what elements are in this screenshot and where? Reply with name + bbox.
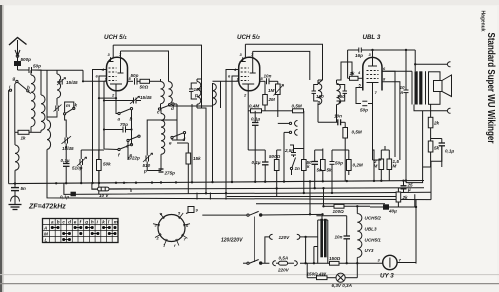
svg-text:16p: 16p xyxy=(355,53,363,58)
screen rail pin3 top xyxy=(113,45,201,79)
switch g antenna xyxy=(15,80,29,92)
svg-text:µ: µ xyxy=(407,187,411,192)
svg-text:g: g xyxy=(12,76,16,81)
trimmer 6/22p xyxy=(143,150,153,171)
connector bottom xyxy=(447,108,450,113)
resistor 100ohm xyxy=(322,204,370,208)
UCH5/2 grid dashes xyxy=(241,68,249,81)
svg-text:5n: 5n xyxy=(21,186,27,191)
pickup jacks xyxy=(278,121,298,182)
svg-text:UCH 5/2: UCH 5/2 xyxy=(237,34,260,41)
switch m k xyxy=(64,107,75,133)
output transformer primary line xyxy=(411,71,413,104)
svg-text:d: d xyxy=(68,219,71,224)
potentiometer 1M volume xyxy=(274,81,284,117)
UCH5/1 pin2 cathode wire xyxy=(99,91,118,114)
resistor 1k grid stopper xyxy=(348,76,363,80)
junction dots left xyxy=(14,80,133,185)
capacitor 5n to ground xyxy=(11,184,19,195)
tap 120V xyxy=(300,236,318,238)
heater leads xyxy=(356,206,358,263)
svg-text:1k: 1k xyxy=(350,71,356,76)
svg-text:0,5A: 0,5A xyxy=(279,256,289,261)
switch tone xyxy=(290,155,295,175)
switch f e xyxy=(118,144,133,151)
svg-text:L: L xyxy=(45,238,48,243)
svg-text:0,2M: 0,2M xyxy=(353,163,363,168)
capacitor 16p top xyxy=(359,48,362,53)
capacitor 50p anode xyxy=(135,78,141,85)
table dots row A xyxy=(51,226,116,228)
svg-text:50p: 50p xyxy=(360,108,368,113)
socket pilot square 9 xyxy=(188,207,194,213)
lamp 6,3V xyxy=(336,273,357,282)
trimmer 15/45 top xyxy=(57,78,66,86)
capacitor 10n ot vertical xyxy=(404,50,409,183)
UCH5/2 pin5 wire xyxy=(260,80,266,82)
svg-text:UBL 3: UBL 3 xyxy=(363,34,381,41)
svg-text:a: a xyxy=(118,117,121,122)
IF2 coil secondary xyxy=(337,84,341,105)
left scan edge dark strip xyxy=(0,0,2,292)
pin labels UBL3 xyxy=(357,52,386,95)
resistor 50ohm xyxy=(140,79,161,83)
svg-text:160: 160 xyxy=(194,87,202,92)
svg-text:0,4M: 0,4M xyxy=(249,104,259,109)
wire IF2 secondary top xyxy=(337,62,353,80)
resistor 2k feedback xyxy=(428,105,433,139)
capacitor 70p xyxy=(117,127,131,133)
trimmer 15/45 antenna xyxy=(62,133,72,147)
svg-text:b: b xyxy=(57,219,60,224)
svg-text:UY3: UY3 xyxy=(365,248,374,253)
resistor 1,5M bias xyxy=(387,150,392,181)
agc feed line xyxy=(131,150,374,192)
capacitor 10n det xyxy=(267,78,278,84)
speaker cone xyxy=(442,75,452,97)
UCH5/2 pin2 wire xyxy=(247,91,249,104)
svg-text:UCH 5/1: UCH 5/1 xyxy=(104,34,127,41)
svg-text:0,5M: 0,5M xyxy=(352,130,362,135)
bus line 3 xyxy=(64,183,431,194)
IF1 secondary leads xyxy=(192,79,202,182)
wire UBL3 top line xyxy=(348,50,416,71)
svg-text:15/45: 15/45 xyxy=(140,95,152,100)
svg-text:0,1µ: 0,1µ xyxy=(60,195,69,200)
UY3 filament bar xyxy=(389,258,391,268)
UBL3 pin8 wire xyxy=(382,82,400,160)
wire lamp rail xyxy=(307,263,357,278)
switch mains top xyxy=(247,211,262,216)
variable capacitor 510p tuning xyxy=(77,150,104,183)
socket pin labels xyxy=(155,208,199,249)
svg-text:c: c xyxy=(62,219,65,224)
capacitor 10n afc xyxy=(318,119,345,125)
svg-text:150Ω 4W: 150Ω 4W xyxy=(307,271,327,276)
wire pot top to 0,5M xyxy=(270,110,285,112)
wire 16p left drop xyxy=(347,50,349,78)
IF2 secondary leads xyxy=(336,80,338,122)
switch a b xyxy=(118,108,133,115)
switch mains bottom xyxy=(243,217,262,265)
svg-text:10n: 10n xyxy=(335,235,343,240)
bottom fold crease line xyxy=(0,274,499,276)
oscillator coil xyxy=(161,114,165,155)
resistor 15k xyxy=(186,143,191,193)
svg-text:510p: 510p xyxy=(72,166,83,171)
IF2 primary leads xyxy=(318,80,323,112)
svg-text:50p: 50p xyxy=(33,64,41,69)
main ground bus xyxy=(13,181,424,184)
bus line 4b xyxy=(227,196,397,198)
capacitor 50p xyxy=(29,67,42,73)
svg-text:0,1µ: 0,1µ xyxy=(61,158,70,163)
tube UCH5/2 envelope xyxy=(239,57,260,91)
transformer top lead xyxy=(316,216,346,220)
table dots row L xyxy=(63,238,71,240)
svg-text:Hagenuk: Hagenuk xyxy=(479,11,485,33)
antenna coil L1 secondary xyxy=(41,95,45,130)
svg-text:50k: 50k xyxy=(103,162,111,167)
wire 10n to 0,5M xyxy=(318,105,345,128)
svg-text:e: e xyxy=(74,219,77,224)
oscillator coil leads xyxy=(159,108,161,171)
svg-text:40µ: 40µ xyxy=(388,209,397,214)
connector fuse right xyxy=(294,261,297,266)
output transformer core xyxy=(415,71,418,104)
UBL3 pin5 wire xyxy=(356,88,363,102)
svg-text:5k: 5k xyxy=(434,146,440,151)
svg-text:h: h xyxy=(91,219,94,224)
UCH5/1 top cap pin3 wire xyxy=(108,45,114,61)
svg-text:50p: 50p xyxy=(131,73,139,78)
resistor 1k xyxy=(15,84,41,134)
vertical osc to bus xyxy=(169,83,213,106)
resistor 0,4M xyxy=(248,109,270,113)
svg-text:10 V: 10 V xyxy=(99,193,109,198)
UCH5/1 pin4 wire xyxy=(93,70,107,184)
svg-text:UY 3: UY 3 xyxy=(380,273,394,280)
capacitor 40u electrolytic xyxy=(370,205,398,209)
tube UBL3 envelope xyxy=(363,57,382,90)
svg-text:500Ω: 500Ω xyxy=(269,154,281,159)
antenna coil L1 primary xyxy=(31,75,35,127)
svg-text:ZF=472kHz: ZF=472kHz xyxy=(28,204,66,211)
svg-text:UBL3: UBL3 xyxy=(365,227,377,232)
detector row resistor 0,2M xyxy=(347,150,352,175)
connector 120V left xyxy=(269,234,272,239)
wire fb returns xyxy=(406,111,442,207)
bus line 4 xyxy=(47,171,431,200)
svg-text:p: p xyxy=(143,169,147,174)
IF1 coil B leads xyxy=(168,79,170,106)
svg-text:p: p xyxy=(194,93,198,98)
svg-text:h: h xyxy=(27,85,30,90)
IF1 coil A xyxy=(161,82,165,104)
svg-text:15/45: 15/45 xyxy=(62,146,74,151)
table inner lines xyxy=(43,219,119,243)
UCH5/2 grid wire pin1 xyxy=(213,81,239,108)
svg-text:2,5n: 2,5n xyxy=(284,148,294,153)
connector top xyxy=(447,62,450,67)
svg-text:1k: 1k xyxy=(21,136,27,141)
power transformer core xyxy=(320,219,323,257)
svg-text:k: k xyxy=(75,103,78,108)
wire left rail down xyxy=(8,90,10,184)
detector row capacitor 25n xyxy=(291,149,296,156)
table dots row M xyxy=(63,232,116,234)
wire cathode 2 down xyxy=(247,104,249,111)
capacitor 25u electrolytic xyxy=(401,181,407,192)
bus junction dots mid xyxy=(115,179,417,208)
nest verticals xyxy=(197,193,226,200)
detector row capacitor 0,1u xyxy=(262,150,269,182)
wire anode to OT xyxy=(382,70,412,72)
UBL3 cathode xyxy=(367,83,379,91)
UBL3 grid dashes xyxy=(367,71,379,79)
resistor 2M bias xyxy=(379,150,384,181)
UBL3 pin7 wire xyxy=(372,91,374,161)
resistor 150ohm 4W xyxy=(307,276,336,280)
oscillator coil box left xyxy=(47,70,51,198)
capacitor 160p IF2a xyxy=(312,85,319,102)
trimmer mid band xyxy=(47,104,62,117)
IF2 coil primary xyxy=(318,84,322,105)
svg-text:p: p xyxy=(317,100,321,105)
socket square lead xyxy=(186,213,189,214)
UCH5/2 pin6 wire xyxy=(232,76,239,182)
wire hv rail2 xyxy=(323,188,325,206)
bottom page edge line xyxy=(0,283,499,285)
detector row capacitor 5n xyxy=(312,150,319,188)
switch e left xyxy=(127,135,140,160)
svg-text:6/22p: 6/22p xyxy=(128,156,140,161)
junction dots power xyxy=(304,213,358,264)
capacitor 50p tone xyxy=(356,101,373,106)
wire cathode network xyxy=(398,188,416,207)
UCH5/2 anode pin7 xyxy=(250,51,256,73)
svg-text:50p: 50p xyxy=(335,161,343,166)
svg-text:g: g xyxy=(84,219,88,224)
wire 40u rail xyxy=(415,200,417,264)
svg-text:M: M xyxy=(393,164,397,169)
coil box top wire xyxy=(32,70,84,81)
svg-text:a: a xyxy=(51,219,54,224)
svg-text:M: M xyxy=(374,164,378,169)
svg-text:b: b xyxy=(130,117,133,122)
svg-text:50Ω: 50Ω xyxy=(140,85,149,90)
rectifier tube UY3 xyxy=(383,255,397,269)
svg-text:UCH5/1: UCH5/1 xyxy=(365,238,382,243)
long wave coil on left column xyxy=(14,132,16,145)
svg-text:5k: 5k xyxy=(327,168,333,173)
svg-text:m: m xyxy=(114,219,118,224)
IF1 coil B xyxy=(169,82,173,104)
svg-text:2k: 2k xyxy=(402,195,409,200)
resistor 2M xyxy=(263,81,268,111)
svg-text:15k: 15k xyxy=(193,156,201,161)
connector fuse left xyxy=(273,261,276,266)
power transformer left winding xyxy=(317,220,319,264)
svg-text:5n: 5n xyxy=(317,168,323,173)
detector row resistor 500ohm xyxy=(274,150,279,197)
mains line bottom xyxy=(261,262,330,264)
UCH5/1 anode plate pin7 xyxy=(118,51,124,73)
tube socket view circle xyxy=(153,213,190,246)
pin labels UCH5/1 xyxy=(96,52,132,98)
UBL3 anode bar xyxy=(368,58,377,67)
svg-text:0,1µ: 0,1µ xyxy=(445,149,454,154)
speaker frame xyxy=(429,72,441,105)
capacitor 0,1u tuning xyxy=(63,147,70,183)
UBL3 pin6 wire xyxy=(382,71,395,157)
heater winding chain xyxy=(357,214,362,258)
IF2a coil xyxy=(213,84,217,106)
svg-text:e: e xyxy=(169,141,172,146)
svg-text:Standard Super WU Wikinger: Standard Super WU Wikinger xyxy=(485,33,496,144)
oscillator coil box right xyxy=(57,70,61,104)
svg-text:160: 160 xyxy=(337,94,345,99)
svg-text:120/220V: 120/220V xyxy=(221,238,243,244)
vertical from screen rail xyxy=(197,79,206,193)
capacitor 160p IF2b xyxy=(337,85,348,102)
capacitor 0,1u agc xyxy=(252,111,259,182)
anode rail 2 xyxy=(253,51,310,80)
anode rail pin7 xyxy=(121,51,169,79)
svg-text:M: M xyxy=(44,232,48,237)
capacitor 500p xyxy=(15,57,21,70)
svg-text:160: 160 xyxy=(316,94,324,99)
wire fb node xyxy=(431,138,442,140)
capacitor 0,1u fb xyxy=(439,139,445,168)
svg-text:1M: 1M xyxy=(268,88,275,93)
svg-text:d: d xyxy=(171,106,174,111)
svg-text:e: e xyxy=(126,144,129,149)
svg-text:p: p xyxy=(338,100,342,105)
svg-text:UCH5/2: UCH5/2 xyxy=(365,216,382,221)
wire bias top xyxy=(373,146,390,160)
capacitor 160p IF1 xyxy=(189,83,197,99)
wire mains switch top xyxy=(202,213,323,216)
svg-text:6,3V 0,3A: 6,3V 0,3A xyxy=(332,283,352,288)
switch c d xyxy=(158,103,177,110)
svg-text:k: k xyxy=(307,164,310,169)
svg-text:2k: 2k xyxy=(433,121,440,126)
svg-text:k: k xyxy=(102,219,105,224)
svg-text:10n: 10n xyxy=(264,74,272,79)
UCH5/2 top cap pin3 xyxy=(240,44,246,61)
svg-text:0,1µ: 0,1µ xyxy=(251,117,260,122)
wire grid branch column xyxy=(104,81,128,149)
IF2a leads xyxy=(212,105,214,182)
UY3 pin7 wire xyxy=(397,262,416,264)
wire antenna to 50p xyxy=(18,69,30,71)
svg-text:500p: 500p xyxy=(21,57,32,62)
detector row resistor 50k xyxy=(302,149,307,194)
svg-text:275p: 275p xyxy=(164,171,176,176)
UCH5/2 pin4 wire xyxy=(226,70,239,194)
resistor 150ohm xyxy=(330,261,383,265)
fuse 0,5A xyxy=(276,261,294,265)
table header letters xyxy=(43,219,118,242)
capacitor 10n mains xyxy=(344,216,351,264)
UCH5/2 cathode xyxy=(242,84,254,91)
wire hv rail xyxy=(309,181,311,215)
output transformer secondary line xyxy=(425,71,427,104)
UCH5/1 grid dashes xyxy=(109,68,117,81)
svg-text:10n: 10n xyxy=(334,114,342,119)
svg-text:c: c xyxy=(157,110,160,115)
IF1 coil A leads xyxy=(160,79,162,108)
svg-text:70p: 70p xyxy=(120,122,128,127)
capacitor 0,1u agc bus xyxy=(71,192,75,196)
UCH5/1 pin5 wire xyxy=(128,80,134,82)
svg-text:m: m xyxy=(66,103,70,108)
speaker top lead xyxy=(415,63,447,65)
tap 220V vertical xyxy=(306,237,318,263)
resistor 0,5M diode load xyxy=(285,109,304,149)
resistor 50k AVC xyxy=(97,150,102,194)
switch e d osc xyxy=(171,132,186,141)
UCH5/1 cathode xyxy=(110,84,122,91)
svg-text:150Ω: 150Ω xyxy=(329,256,341,261)
svg-text:1n: 1n xyxy=(295,166,301,171)
screen rail 2 xyxy=(245,44,322,80)
wire 120V jumper xyxy=(265,237,270,263)
speaker bottom lead xyxy=(414,105,448,111)
svg-text:n: n xyxy=(401,90,404,95)
wire osc grid xyxy=(147,104,184,150)
connector 120V right xyxy=(297,234,300,239)
bus line 2 xyxy=(92,183,424,189)
svg-text:2M: 2M xyxy=(268,97,276,102)
UCH5/1 grid1 wire pin1 xyxy=(83,80,107,82)
antenna xyxy=(9,38,27,58)
wire switch column b xyxy=(131,110,133,145)
top scan edge light strip xyxy=(0,0,499,5)
svg-text:A: A xyxy=(43,226,47,231)
UCH5/1 pin6 wire xyxy=(99,76,107,183)
svg-text:d: d xyxy=(183,137,186,142)
svg-text:0,5M: 0,5M xyxy=(292,104,302,109)
svg-text:220V: 220V xyxy=(277,268,290,273)
resistor 2k cathode xyxy=(396,188,401,207)
fuse 10k pill xyxy=(92,187,131,191)
detector row resistor 5k xyxy=(321,149,326,182)
bus line 5 xyxy=(256,203,385,205)
svg-text:510: 510 xyxy=(143,163,151,168)
chassis arc symbol xyxy=(11,196,20,202)
svg-text:15/45: 15/45 xyxy=(66,80,78,85)
svg-text:100Ω: 100Ω xyxy=(333,209,345,214)
pin labels UCH5/2 xyxy=(228,52,264,98)
switch table frame xyxy=(43,219,119,243)
ground xyxy=(9,195,22,210)
wire m k to coil xyxy=(65,102,74,113)
detector row top wires xyxy=(248,111,349,150)
tube UCH5/1 envelope xyxy=(107,57,128,91)
resistor 0,5M grid leak xyxy=(343,128,348,182)
IF1 secondary coil xyxy=(197,82,201,105)
capacitor 275p xyxy=(159,169,164,172)
detector row capacitor 50p xyxy=(330,150,335,193)
trimmer 15/45 mixer grid xyxy=(128,96,141,104)
svg-text:0,1µ: 0,1µ xyxy=(252,160,261,165)
power transformer right winding xyxy=(327,220,329,264)
svg-text:120V: 120V xyxy=(279,235,291,240)
node i terminal xyxy=(9,89,12,91)
resistor 5k xyxy=(428,139,433,153)
